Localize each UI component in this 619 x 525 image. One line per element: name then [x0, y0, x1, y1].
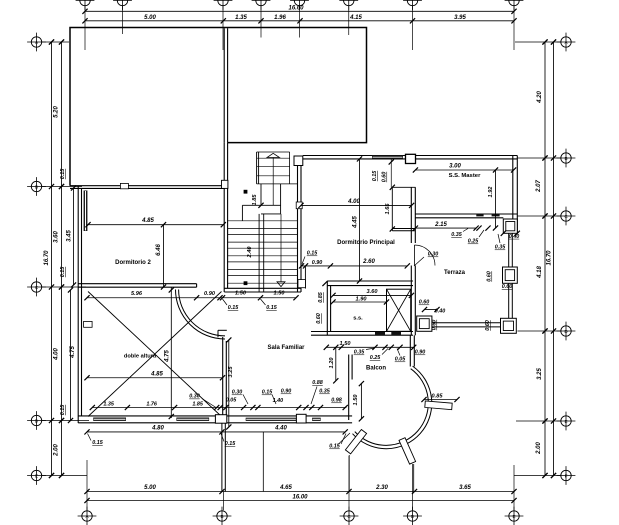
grid bubble top 8 [509, 0, 519, 6]
stair direction triangle down [277, 282, 285, 287]
leader 0.15 bw c [341, 434, 346, 445]
svg-text:doble altura: doble altura [124, 354, 157, 360]
dim 3.60 ss [333, 294, 411, 296]
stair upper flight left rail [256, 152, 258, 184]
grid bubble right E [561, 416, 571, 426]
rail balcon west [348, 355, 350, 421]
grid bubble left C [31, 282, 41, 292]
svg-text:S.S. Master: S.S. Master [449, 173, 481, 179]
stair bottom B mark [244, 281, 248, 285]
leader 0.15 bw b [221, 434, 224, 442]
leader 0.15 stair a [223, 299, 228, 305]
extension balcon left [348, 455, 350, 492]
wall stub balcon east [409, 335, 411, 366]
terraza rail east upper [508, 234, 510, 268]
svg-text:1.20: 1.20 [329, 357, 335, 369]
svg-text:4.80: 4.80 [151, 426, 164, 432]
svg-text:2.15: 2.15 [434, 222, 447, 228]
svg-text:Dormitorio Principal: Dormitorio Principal [337, 240, 395, 246]
svg-text:0.60: 0.60 [382, 172, 388, 183]
svg-text:0.35: 0.35 [495, 245, 506, 251]
stair pier northeast [294, 156, 303, 166]
svg-text:0.60: 0.60 [316, 313, 322, 324]
svg-text:E: E [35, 473, 38, 478]
pier south wall a [215, 415, 226, 424]
stair upper flight right edge [289, 152, 291, 184]
svg-text:0.40: 0.40 [435, 309, 446, 315]
svg-text:0.30: 0.30 [189, 394, 200, 400]
svg-text:4.40: 4.40 [274, 426, 287, 432]
leader 0.40 ticks [501, 231, 506, 236]
right overall dimension line 16.70 [553, 42, 555, 476]
grid bubble left E [31, 470, 41, 480]
stair direction arrow up [267, 153, 280, 157]
grid bubble bottom D [407, 511, 417, 521]
grid bubble bottom E [509, 511, 519, 521]
svg-text:0.90: 0.90 [281, 389, 292, 395]
stair flight bottom edge [257, 183, 298, 185]
window south b [176, 418, 209, 421]
wall dormitorio2 north [70, 185, 228, 187]
svg-text:F: F [565, 473, 568, 478]
stair treads upper [257, 157, 290, 159]
grid stub lines bottom [86, 460, 88, 510]
step corner sala [218, 329, 227, 331]
grid bubble right C [561, 211, 571, 221]
svg-text:2.60: 2.60 [362, 259, 375, 265]
svg-text:2.00: 2.00 [536, 442, 542, 455]
svg-text:E: E [512, 514, 515, 519]
svg-text:Dormitorio 2: Dormitorio 2 [115, 260, 151, 266]
wall ss west [326, 281, 328, 335]
dim 4.85 doble altura [87, 377, 223, 379]
svg-text:5.00: 5.00 [144, 15, 156, 21]
grid bubble bottom B [217, 511, 227, 521]
wall ss master east [512, 156, 514, 230]
door swing arc terraza [415, 245, 436, 266]
closet north line [392, 186, 415, 188]
grid bubble right F [561, 470, 571, 480]
svg-text:0.15: 0.15 [262, 390, 273, 396]
top segment dimension line [85, 20, 514, 22]
bottom overall dimension line 16.00 [87, 500, 514, 502]
closet south wall [392, 228, 415, 230]
grid bubble left A [31, 37, 41, 47]
svg-text:0.85: 0.85 [432, 394, 444, 400]
wall stairs south [224, 287, 301, 289]
svg-text:4.15: 4.15 [349, 15, 362, 21]
svg-text:1.35: 1.35 [235, 15, 247, 21]
svg-text:5.20: 5.20 [54, 106, 60, 118]
tick ss north wall end [322, 281, 327, 286]
balcony curved wall inner [355, 369, 429, 446]
dim 4.85 dormitorio2 [88, 224, 223, 226]
svg-text:1.96: 1.96 [274, 15, 286, 21]
grid bubble bottom C [344, 511, 354, 521]
pier south wall b [296, 414, 306, 423]
svg-text:16.00: 16.00 [292, 495, 308, 501]
svg-text:16.70: 16.70 [547, 250, 553, 266]
svg-text:0.15: 0.15 [60, 266, 66, 277]
svg-text:Terraza: Terraza [444, 270, 466, 276]
dim 4.80 4.40 [87, 431, 345, 433]
fixture ss south b [391, 332, 401, 335]
svg-text:3.60: 3.60 [54, 231, 60, 243]
svg-text:3.65: 3.65 [459, 485, 471, 491]
svg-text:4.45: 4.45 [353, 216, 359, 229]
dim 4.75 inner vertical [170, 288, 172, 419]
left crosshair row E [42, 475, 87, 477]
left crosshair row B [42, 186, 82, 188]
svg-text:1.50: 1.50 [340, 341, 352, 347]
svg-text:16.60: 16.60 [288, 6, 304, 12]
grid bubble left B [31, 181, 41, 191]
svg-text:0.30: 0.30 [232, 390, 243, 396]
svg-text:1.92: 1.92 [488, 186, 494, 198]
stair void lines [242, 204, 280, 206]
wall closet east lower [410, 266, 412, 336]
leader 0.15 dp door [302, 257, 305, 265]
leader 0.35 a [463, 229, 468, 232]
terraza pier upper east [503, 267, 518, 283]
lavatory pier terraza [417, 316, 432, 331]
leader 0.30 br [202, 399, 216, 408]
left overall dimension line 16.70 [51, 42, 53, 476]
svg-text:0.90: 0.90 [204, 291, 216, 297]
window south c [246, 418, 297, 421]
svg-text:3.45: 3.45 [67, 230, 73, 242]
leader 0.30 br2 [243, 395, 248, 405]
right crosshair row B [518, 157, 561, 159]
svg-text:0.98: 0.98 [331, 398, 342, 404]
wall stairs west [223, 143, 225, 292]
dim 6.46 vertical [163, 225, 165, 287]
leader 0.05 balcon [397, 349, 400, 356]
window south d [312, 418, 321, 421]
leader 0.25 [479, 230, 484, 237]
pier ss master southeast [503, 219, 517, 233]
svg-text:6.46: 6.46 [156, 244, 162, 256]
bottom segment dimension line [87, 491, 514, 493]
svg-text:4.00: 4.00 [54, 348, 60, 361]
left inner dim 3.45 [73, 188, 75, 285]
svg-text:0.15: 0.15 [372, 170, 378, 181]
grid bubble top 2 [117, 0, 127, 6]
svg-text:16.70: 16.70 [44, 250, 50, 266]
svg-text:B: B [220, 514, 223, 519]
wall ss north [327, 280, 413, 282]
grid bubble top 1 [80, 0, 90, 6]
shower box diagonal 2 [387, 289, 411, 331]
dim 1.90 ss [333, 301, 387, 303]
svg-text:B: B [35, 184, 38, 189]
grid bubble top 6 [344, 0, 354, 6]
door marker dp southwest [298, 280, 305, 288]
wall porch west pair [221, 423, 223, 492]
grid bubble right A [561, 37, 571, 47]
wall closet east [410, 187, 412, 243]
grid bubble bottom A [82, 511, 92, 521]
svg-text:0.15: 0.15 [60, 404, 66, 415]
svg-text:0.60: 0.60 [432, 320, 438, 331]
balcony post south [399, 438, 416, 464]
svg-text:0.05: 0.05 [226, 398, 237, 404]
svg-text:2.07: 2.07 [536, 180, 542, 193]
svg-text:5.00: 5.00 [144, 485, 156, 491]
svg-text:2.40: 2.40 [247, 246, 253, 259]
svg-text:3.00: 3.00 [449, 164, 461, 170]
dim 4.00 dorm principal [301, 204, 412, 206]
top overall dimension line 16.60 [85, 10, 514, 12]
leader 0.25 balcon [382, 349, 388, 355]
leader 0.35 b [498, 234, 500, 243]
svg-text:3.25: 3.25 [537, 368, 543, 380]
balcony post east [425, 401, 452, 410]
terraza rail south [432, 322, 501, 324]
svg-text:1.35: 1.35 [103, 402, 114, 408]
pier north wall [406, 154, 416, 163]
wall north wing [303, 155, 518, 157]
dim ticks closet [390, 185, 395, 190]
svg-text:0.15: 0.15 [60, 168, 66, 179]
curved wall arc inner [179, 290, 225, 336]
svg-text:1.50: 1.50 [353, 394, 359, 406]
left segment dimension line [61, 42, 63, 476]
stair landing B mark [244, 190, 248, 194]
grid bubble right D [561, 326, 571, 336]
svg-text:0.15: 0.15 [329, 444, 340, 450]
fixture ss master a [476, 214, 483, 217]
svg-text:0.88: 0.88 [312, 380, 323, 386]
svg-text:0.35: 0.35 [354, 350, 365, 356]
dim 4.45 vertical dorm principal [359, 159, 361, 281]
dim row balcon [326, 346, 413, 348]
diagonal cross line 2 [88, 292, 222, 417]
closet west line [391, 187, 393, 231]
svg-text:0.60: 0.60 [487, 271, 493, 282]
svg-text:5.96: 5.96 [131, 291, 143, 297]
shower box diagonal 1 [387, 289, 411, 331]
svg-text:Balcon: Balcon [366, 366, 386, 372]
window hatched north wall [372, 155, 403, 159]
dim 1.20 balcon [335, 347, 337, 381]
left crosshair row A [42, 41, 69, 43]
terraza rail east [508, 283, 510, 318]
leader 0.30 door [414, 257, 424, 266]
svg-text:0.05: 0.05 [395, 357, 406, 363]
right crosshair row C [518, 215, 561, 217]
door marker dorm principal west [296, 202, 302, 209]
stair direction arrow down stem [280, 214, 282, 282]
leader 0.88 br [311, 387, 317, 405]
svg-text:0.35: 0.35 [451, 232, 462, 238]
grid stub lines top [84, 6, 86, 50]
wall ss master south [416, 213, 518, 215]
svg-text:0.40: 0.40 [509, 234, 520, 240]
svg-text:0.25: 0.25 [370, 355, 381, 361]
svg-text:0.60: 0.60 [502, 284, 513, 290]
svg-text:0.35: 0.35 [319, 389, 330, 395]
grid bubble top 4 [256, 0, 266, 6]
dim 1.50 porch [360, 384, 362, 419]
svg-text:0.25: 0.25 [468, 239, 479, 245]
dim leader closet top [390, 159, 392, 187]
svg-text:2.30: 2.30 [375, 485, 388, 491]
leader 0.15 stair b [261, 299, 266, 305]
curved wall arc outer [176, 290, 226, 340]
svg-text:0.60: 0.60 [485, 320, 491, 331]
wall sala east [222, 337, 224, 420]
wall south main [78, 415, 352, 417]
svg-text:4.75: 4.75 [70, 346, 76, 359]
stair central rails [258, 214, 260, 292]
left inner dim 4.75 [70, 290, 72, 421]
grid bubble right B [561, 153, 571, 163]
extension balcon right [413, 464, 415, 492]
svg-text:1.50: 1.50 [235, 291, 247, 297]
dim 1.92 ss master [495, 170, 497, 228]
svg-text:0.15: 0.15 [266, 305, 277, 311]
svg-text:0.15: 0.15 [307, 251, 318, 257]
grid bubble top 3 [218, 0, 228, 6]
dim 3.25 sala [228, 340, 230, 427]
window marker dormitorio2 north [120, 183, 128, 188]
wall divider upper void [223, 28, 225, 142]
svg-text:0.85: 0.85 [318, 291, 324, 302]
svg-text:E: E [564, 419, 567, 424]
grid bubble top 5 [294, 0, 304, 6]
svg-text:1.76: 1.76 [146, 402, 157, 408]
dim 0.85 post [424, 399, 457, 401]
right crosshair row D [518, 330, 561, 332]
window south a [93, 418, 126, 421]
door frame line dp [304, 266, 306, 289]
leader 0.35 balcon [366, 348, 375, 350]
porch line center [262, 432, 264, 492]
junction box stairs west wall [222, 180, 228, 188]
stair treads lower [228, 220, 298, 222]
svg-text:2.00: 2.00 [54, 444, 60, 457]
svg-text:4.20: 4.20 [537, 91, 543, 104]
leader 0.15 balcon sw [338, 433, 350, 445]
svg-text:0.30: 0.30 [428, 252, 439, 258]
door leaf terraza [414, 245, 416, 266]
stair upper landing edge [257, 151, 290, 153]
fixture ss master b [492, 214, 500, 217]
diagonal cross line 1 [88, 292, 222, 417]
svg-text:0.15: 0.15 [92, 440, 103, 446]
dim row bottom interior [92, 407, 346, 409]
svg-text:4.85: 4.85 [141, 218, 154, 224]
svg-text:1.65: 1.65 [385, 203, 391, 215]
grid bubble top 7 [407, 0, 417, 6]
dim 3.00 ss master [415, 169, 513, 171]
fixture ss south a [375, 332, 385, 335]
svg-text:4.75: 4.75 [165, 350, 171, 363]
grid bubble left D [31, 415, 41, 425]
right crosshair row F [514, 475, 561, 477]
svg-text:4.65: 4.65 [279, 485, 292, 491]
window west wall dormitorio2 [84, 191, 88, 232]
svg-text:s.s.: s.s. [353, 315, 363, 321]
svg-text:1.90: 1.90 [356, 297, 368, 303]
svg-text:1.85: 1.85 [252, 194, 258, 206]
balcony post southwest [345, 430, 366, 454]
right crosshair row E [516, 420, 561, 422]
balcony curved wall outer [353, 366, 432, 449]
terraza pier lower east [501, 318, 517, 333]
wall dormitorio2 west [77, 186, 79, 423]
svg-text:3.25: 3.25 [228, 366, 234, 378]
wall dormitorio2 south [78, 283, 196, 285]
svg-text:Sala Familiar: Sala Familiar [267, 345, 305, 351]
dim 2.15 [415, 227, 476, 229]
outer wall upper void outline [70, 28, 367, 186]
right segment dimension line [544, 42, 546, 476]
dim 0.40 shower [425, 309, 438, 311]
window marker west wall lower [84, 321, 93, 327]
left crosshair row D [42, 420, 89, 422]
svg-text:1.50: 1.50 [274, 291, 286, 297]
svg-text:0.15: 0.15 [228, 305, 239, 311]
svg-text:0.90: 0.90 [312, 260, 323, 266]
svg-text:4.18: 4.18 [537, 266, 543, 279]
svg-text:3.95: 3.95 [454, 15, 466, 21]
svg-text:0.90: 0.90 [415, 350, 426, 356]
svg-text:4.85: 4.85 [150, 372, 163, 378]
left crosshair row C [42, 286, 86, 288]
dim 2.60 [302, 265, 408, 267]
wall stairs east [297, 166, 299, 293]
svg-text:0.15: 0.15 [225, 441, 236, 447]
wall ss south [311, 331, 413, 333]
right crosshair row A [515, 41, 561, 43]
leader 0.15 br [272, 395, 276, 405]
shower box ss [387, 289, 411, 331]
svg-text:3.60: 3.60 [367, 289, 379, 295]
svg-text:4.00: 4.00 [347, 199, 360, 205]
leader 0.15 bw a [88, 434, 92, 441]
dim line below dormitorio2 [87, 297, 296, 299]
svg-text:1.85: 1.85 [192, 402, 203, 408]
svg-text:0.60: 0.60 [419, 300, 430, 306]
svg-text:B: B [564, 156, 567, 161]
